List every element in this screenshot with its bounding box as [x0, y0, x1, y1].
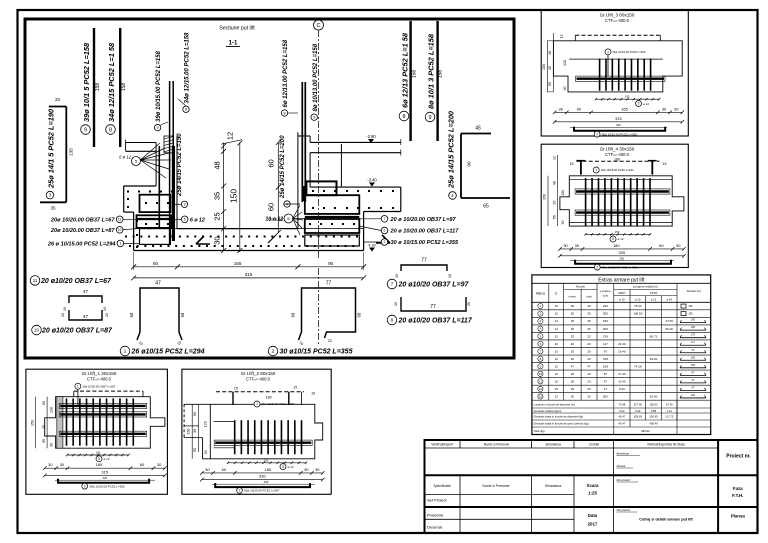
svg-text:60: 60 — [222, 467, 227, 472]
svg-text:26: 26 — [571, 304, 575, 308]
box2 dashed left edge — [183, 404, 185, 437]
bar item 9 right line — [436, 21, 438, 141]
svg-text:12: 12 — [555, 334, 559, 338]
svg-text:165: 165 — [234, 261, 242, 266]
svg-text:25ø 14/1 5 PC52 L=190: 25ø 14/1 5 PC52 L=190 — [47, 108, 56, 189]
svg-text:OB37: OB37 — [618, 291, 626, 295]
box3 horizontal rebar — [576, 76, 666, 81]
box2 bottom bar — [215, 483, 310, 487]
box1 bottom bar — [58, 479, 149, 483]
svg-text:165: 165 — [621, 106, 628, 111]
title block vertical lines — [459, 440, 461, 448]
svg-text:20: 20 — [394, 302, 398, 306]
svg-text:Proiect nr.: Proiect nr. — [726, 454, 751, 460]
svg-text:9: 9 — [157, 126, 159, 130]
stirrup shape 10 label — [32, 325, 42, 335]
svg-text:Verificat/Expert: Verificat/Expert — [431, 443, 453, 447]
svg-text:276: 276 — [691, 334, 696, 337]
svg-text:1: 1 — [607, 50, 609, 54]
footing horizontal rebar left — [137, 218, 172, 220]
bar item 9 line — [93, 28, 95, 147]
box3 tick label — [636, 101, 642, 107]
svg-text:15: 15 — [293, 385, 297, 389]
svg-text:150: 150 — [30, 420, 34, 426]
svg-text:7: 7 — [391, 282, 394, 288]
svg-text:8: 8 — [185, 108, 187, 112]
svg-text:-3.40: -3.40 — [367, 178, 377, 183]
mid callout 5 with 6 o 12 — [181, 216, 188, 223]
svg-text:PC52: PC52 — [650, 291, 657, 295]
box2 vertical rebars — [234, 420, 236, 454]
svg-text:Cerinta: Cerinta — [589, 443, 600, 447]
bar shape 4 label — [449, 192, 457, 200]
bar item 8 line — [119, 28, 121, 147]
svg-text:34ø 12/15 PC52 L=1 58: 34ø 12/15 PC52 L=1 58 — [107, 42, 116, 122]
svg-text:77: 77 — [326, 281, 332, 287]
svg-text:55: 55 — [548, 82, 552, 86]
svg-text:ø 10: ø 10 — [619, 298, 625, 302]
svg-text:68: 68 — [180, 312, 185, 317]
svg-text:68: 68 — [291, 312, 296, 317]
table data rows — [532, 309, 711, 311]
svg-text:60: 60 — [266, 159, 275, 167]
box2 tick dim line — [228, 462, 306, 464]
svg-text:1:25: 1:25 — [588, 491, 597, 496]
left wall second rebar — [158, 146, 160, 228]
svg-text:30: 30 — [563, 87, 567, 91]
svg-text:20: 20 — [587, 395, 591, 399]
svg-text:19.40: 19.40 — [618, 349, 626, 353]
stirrup shape 7 drawing — [401, 265, 447, 271]
stirrup shape 2 drawing — [299, 288, 356, 340]
svg-text:15: 15 — [234, 386, 238, 390]
box4 dim total 330 — [560, 255, 684, 257]
box1 horizontal rebar 3 — [59, 431, 147, 436]
svg-text:Nume si Prenume: Nume si Prenume — [482, 484, 509, 488]
svg-text:45.47: 45.47 — [619, 422, 626, 426]
svg-text:35: 35 — [213, 192, 222, 200]
svg-text:CTFu=-400.0: CTFu=-400.0 — [605, 152, 630, 157]
svg-text:12: 12 — [555, 395, 559, 399]
svg-text:0.89: 0.89 — [651, 409, 657, 413]
svg-text:20 ø10/20 OB37 L=87: 20 ø10/20 OB37 L=87 — [41, 328, 113, 335]
svg-text:35: 35 — [42, 425, 46, 429]
svg-text:20: 20 — [571, 387, 575, 391]
right footing stirrup rect A — [305, 195, 360, 214]
svg-text:158: 158 — [691, 364, 696, 367]
svg-text:35: 35 — [552, 201, 556, 205]
svg-text:65: 65 — [483, 204, 489, 210]
svg-text:63.20: 63.20 — [650, 357, 658, 361]
svg-text:Proiectat: Proiectat — [427, 513, 444, 518]
box3 bottom bar — [574, 127, 665, 131]
svg-text:ø 12: ø 12 — [651, 298, 657, 302]
svg-text:26 ø10/15 PC52 L=294: 26 ø10/15 PC52 L=294 — [131, 349, 205, 356]
svg-text:3: 3 — [183, 203, 185, 207]
box3 dim row — [555, 111, 683, 113]
box1 horizontal rebar 1 — [59, 403, 147, 408]
svg-text:48: 48 — [548, 51, 552, 55]
svg-text:60: 60 — [266, 203, 275, 211]
stirrup shape 10 drawing — [69, 310, 102, 320]
svg-text:10: 10 — [555, 387, 559, 391]
svg-text:30: 30 — [304, 467, 309, 472]
svg-text:20 ø10/20 OB37 L=97: 20 ø10/20 OB37 L=97 — [398, 282, 470, 289]
svg-text:Lungime in functie de diametre: Lungime in functie de diametre (m) — [534, 403, 576, 407]
bottom slab top steps — [134, 228, 177, 230]
svg-text:30 ø 10/15.00 PC52 L=355: 30 ø 10/15.00 PC52 L=355 — [391, 240, 460, 246]
svg-text:12: 12 — [552, 156, 556, 160]
svg-text:10: 10 — [539, 372, 543, 376]
svg-text:117.73: 117.73 — [665, 415, 674, 419]
svg-text:438.49: 438.49 — [649, 422, 658, 426]
pit floor line — [177, 228, 298, 230]
svg-text:ø 10: ø 10 — [635, 298, 641, 302]
svg-text:47: 47 — [587, 364, 591, 368]
footing horizontal rebar right — [305, 216, 360, 218]
svg-text:60: 60 — [577, 106, 582, 111]
svg-text:2: 2 — [84, 484, 86, 488]
svg-text:10: 10 — [555, 342, 559, 346]
title block header row line — [425, 447, 719, 449]
bar item 8 wall label — [183, 106, 189, 112]
svg-text:20ø 10/20.00 OB37 L=87: 20ø 10/20.00 OB37 L=87 — [50, 228, 115, 234]
svg-text:26ø 10/20.00 PC52 L=287: 26ø 10/20.00 PC52 L=287 — [262, 402, 295, 406]
svg-text:120: 120 — [563, 60, 567, 66]
table summary rows — [532, 407, 711, 409]
box2 horizontal rebar — [214, 440, 312, 445]
box1 horizontal rebar 2 — [59, 412, 147, 417]
svg-text:0.62: 0.62 — [635, 409, 641, 413]
svg-text:50.00: 50.00 — [665, 327, 673, 331]
svg-text:262: 262 — [691, 394, 696, 397]
svg-text:34ø 12/15.00 PC52 L=158: 34ø 12/15.00 PC52 L=158 — [185, 32, 191, 104]
left wall vertical rebar thick — [172, 146, 175, 241]
svg-text:25: 25 — [587, 319, 591, 323]
svg-text:40: 40 — [587, 357, 591, 361]
box1 dashed top bar — [74, 390, 143, 392]
detail box Gr.I.lift_3 — [541, 10, 688, 136]
svg-text:5: 5 — [98, 457, 100, 461]
svg-text:ø 14: ø 14 — [666, 298, 672, 302]
rebar fan item 5 left — [132, 157, 141, 166]
axis C centerline — [318, 30, 320, 258]
svg-text:22: 22 — [587, 334, 591, 338]
svg-text:30: 30 — [558, 106, 563, 111]
svg-text:47.50: 47.50 — [665, 319, 673, 323]
svg-text:15: 15 — [663, 162, 667, 166]
svg-text:39ø 10/15.00 PC52 L=158: 39ø 10/15.00 PC52 L=158 — [156, 50, 162, 122]
svg-text:10: 10 — [555, 372, 559, 376]
title block thick separators — [425, 474, 758, 476]
table title — [532, 282, 711, 284]
svg-text:117: 117 — [691, 341, 695, 344]
svg-text:Lungime totală (m): Lungime totală (m) — [633, 285, 658, 289]
svg-text:titlu plansa: titlu plansa — [617, 508, 631, 512]
dim 150 total — [239, 143, 241, 252]
box3 vertical rebars — [599, 59, 601, 91]
svg-text:60: 60 — [153, 261, 159, 266]
svg-text:250: 250 — [619, 257, 624, 261]
svg-text:10: 10 — [555, 312, 559, 316]
svg-text:total: total — [587, 295, 592, 299]
svg-text:77: 77 — [430, 304, 436, 310]
svg-text:30: 30 — [575, 243, 580, 248]
svg-text:2: 2 — [596, 265, 598, 269]
svg-text:25: 25 — [571, 319, 575, 323]
right slab step line — [340, 144, 342, 187]
box4 vertical rebars — [585, 178, 587, 226]
left wall corner haunch hatch — [164, 136, 174, 153]
bar item 9 right wall label — [311, 114, 317, 120]
svg-text:165: 165 — [96, 462, 103, 467]
svg-text:30: 30 — [662, 106, 667, 111]
svg-text:150: 150 — [96, 451, 101, 455]
box1 left dim chain — [35, 397, 37, 449]
svg-text:30: 30 — [213, 236, 222, 244]
right footing ledge — [364, 211, 401, 213]
box3 plan outline — [553, 41, 682, 92]
svg-text:150: 150 — [543, 194, 547, 200]
right footing bottom stirrup — [305, 235, 360, 246]
box2 inner bar label — [254, 401, 260, 407]
svg-text:67: 67 — [604, 379, 608, 383]
svg-text:2: 2 — [272, 349, 275, 355]
svg-text:315: 315 — [615, 116, 622, 121]
callout 6 right — [381, 227, 388, 234]
rebar fan item 5 right — [284, 214, 293, 223]
svg-text:30: 30 — [676, 243, 681, 248]
svg-text:26 ø 10/15.00 PC52 L=294: 26 ø 10/15.00 PC52 L=294 — [47, 241, 117, 247]
svg-text:8: 8 — [403, 114, 406, 120]
bottom dim line 60/165/90 — [134, 266, 364, 268]
svg-text:290: 290 — [264, 480, 269, 484]
svg-text:1-1: 1-1 — [229, 41, 238, 47]
svg-text:6: 6 — [391, 318, 394, 324]
svg-text:Scara: Scara — [587, 483, 600, 488]
svg-text:190: 190 — [603, 319, 608, 323]
svg-text:159.69: 159.69 — [634, 415, 643, 419]
right footing top at -3.40 — [310, 186, 401, 188]
svg-text:10: 10 — [395, 274, 399, 278]
bar item 8 right line — [409, 21, 411, 141]
svg-text:8: 8 — [283, 111, 285, 115]
svg-text:45.47: 45.47 — [619, 415, 626, 419]
svg-text:5: 5 — [638, 102, 640, 106]
box2 inner wall line — [209, 404, 211, 459]
svg-text:10: 10 — [34, 328, 39, 333]
svg-text:12: 12 — [226, 132, 235, 140]
svg-text:73.48: 73.48 — [619, 403, 626, 407]
svg-text:Specificatie: Specificatie — [433, 484, 450, 488]
svg-text:10: 10 — [63, 307, 67, 311]
svg-text:Plansa: Plansa — [731, 514, 746, 519]
box2 dashed top bar — [216, 391, 304, 393]
left footing bottom stirrup — [140, 229, 171, 245]
svg-text:1: 1 — [119, 242, 121, 246]
box3 left dim chain — [546, 41, 548, 92]
bar item 9 wall label — [154, 124, 160, 130]
svg-text:355: 355 — [689, 313, 694, 316]
svg-text:30ø 10/20.00 PC52 L=287: 30ø 10/20.00 PC52 L=287 — [244, 489, 280, 493]
svg-text:Nume si Prenume: Nume si Prenume — [484, 443, 510, 447]
left floor slab lines — [126, 142, 157, 144]
box1 dim total 315 — [45, 474, 165, 476]
svg-text:Sectiune put lift: Sectiune put lift — [219, 26, 255, 32]
box4 tick dim line — [586, 233, 650, 235]
box2 dim total 330 — [202, 479, 323, 481]
svg-text:30 ø10/15 PC52 L=355: 30 ø10/15 PC52 L=355 — [280, 349, 353, 356]
svg-text:10: 10 — [555, 304, 559, 308]
svg-text:30: 30 — [204, 450, 208, 454]
svg-text:15: 15 — [311, 391, 315, 395]
svg-text:200: 200 — [691, 326, 696, 329]
svg-text:Total (kg): Total (kg) — [534, 429, 545, 433]
svg-text:117: 117 — [603, 342, 608, 346]
mid callout 3 — [174, 203, 181, 205]
box3 inner bar label — [605, 49, 611, 55]
svg-text:Faza: Faza — [733, 486, 743, 491]
box4 plan outline — [560, 176, 684, 226]
svg-text:15ø 10/20.00 OB37 L=287: 15ø 10/20.00 OB37 L=287 — [82, 384, 115, 388]
stirrup shape 1 label — [120, 346, 130, 356]
svg-text:12: 12 — [555, 357, 559, 361]
svg-text:20: 20 — [61, 313, 65, 317]
bottom slab bar hooks left — [196, 236, 210, 244]
svg-text:Lungime: Lungime — [600, 289, 611, 293]
svg-text:30ø 10/15.00 PC52 L=355: 30ø 10/15.00 PC52 L=355 — [89, 484, 125, 488]
svg-text:158: 158 — [121, 83, 127, 92]
svg-text:106.50: 106.50 — [633, 312, 643, 316]
right footing stirrup rect B — [305, 219, 360, 233]
svg-text:6ø 12/13.00 PC52 L=158: 6ø 12/13.00 PC52 L=158 — [283, 39, 289, 107]
svg-text:35: 35 — [193, 429, 197, 433]
box1 tick label — [96, 456, 102, 462]
svg-text:22: 22 — [571, 334, 575, 338]
svg-text:48: 48 — [552, 181, 556, 185]
svg-text:25: 25 — [571, 327, 575, 331]
svg-text:330: 330 — [619, 250, 626, 255]
stirrup shape 6 label — [387, 315, 397, 325]
stirrup shape 2 label — [268, 346, 278, 356]
callout 2 right — [381, 239, 388, 246]
svg-text:14: 14 — [555, 319, 559, 323]
svg-text:47: 47 — [83, 314, 89, 320]
axis C circle — [314, 20, 324, 30]
svg-text:1: 1 — [256, 402, 258, 406]
svg-text:25ø 14/15 PC52 L=190: 25ø 14/15 PC52 L=190 — [177, 133, 183, 197]
svg-text:68: 68 — [357, 312, 362, 317]
bottom slab bar hooks right — [376, 235, 390, 243]
svg-text:158: 158 — [691, 356, 696, 359]
svg-text:120: 120 — [203, 421, 207, 427]
left wall outer face — [155, 143, 157, 187]
bottom dim line 315 — [134, 277, 364, 279]
svg-text:13.40: 13.40 — [618, 379, 626, 383]
svg-text:22: 22 — [328, 339, 332, 343]
svg-text:20: 20 — [571, 372, 575, 376]
svg-text:130: 130 — [561, 190, 565, 196]
svg-text:9: 9 — [429, 115, 432, 121]
box3 tick dim line — [596, 98, 659, 100]
svg-text:2: 2 — [384, 240, 386, 244]
svg-text:2: 2 — [239, 489, 241, 493]
title block outline — [425, 440, 758, 533]
svg-text:26: 26 — [587, 304, 591, 308]
svg-text:35: 35 — [50, 206, 56, 211]
svg-text:68: 68 — [129, 312, 134, 317]
left slab end ticks — [125, 140, 127, 143]
mid callout 4 — [284, 203, 300, 205]
svg-text:12: 12 — [560, 35, 564, 39]
svg-text:10: 10 — [555, 364, 559, 368]
bar shape 3 bracket — [65, 107, 67, 203]
footing dots right — [312, 190, 314, 192]
svg-text:13: 13 — [539, 395, 543, 399]
svg-text:Gr.I.lift_1 30x150: Gr.I.lift_1 30x150 — [82, 371, 117, 376]
svg-text:95: 95 — [42, 439, 46, 443]
svg-text:30: 30 — [48, 462, 53, 467]
svg-text:20: 20 — [55, 97, 61, 102]
svg-text:20: 20 — [571, 395, 575, 399]
vertical dim chain right 60/60 — [277, 142, 279, 232]
svg-text:330: 330 — [259, 474, 266, 479]
svg-text:Extras armare put lift: Extras armare put lift — [598, 277, 645, 283]
bar shape 3 label — [46, 191, 54, 199]
svg-text:483.93: 483.93 — [641, 429, 650, 433]
svg-text:180: 180 — [266, 396, 272, 400]
svg-text:180: 180 — [265, 467, 272, 472]
svg-text:276: 276 — [603, 334, 608, 338]
svg-text:20: 20 — [587, 342, 591, 346]
svg-text:52.40: 52.40 — [650, 395, 658, 399]
svg-text:17.40: 17.40 — [618, 372, 626, 376]
svg-text:48: 48 — [213, 161, 222, 169]
svg-text:355: 355 — [603, 312, 608, 316]
svg-text:30: 30 — [50, 443, 54, 447]
svg-text:Gr.I.lift_2 80x150: Gr.I.lift_2 80x150 — [241, 371, 276, 376]
svg-text:55: 55 — [193, 448, 197, 452]
svg-text:180: 180 — [614, 157, 620, 161]
svg-text:2017: 2017 — [588, 522, 598, 527]
svg-text:40: 40 — [571, 357, 575, 361]
svg-text:10 ø 12: 10 ø 12 — [265, 217, 283, 223]
box4 bottom bar — [575, 260, 671, 264]
svg-text:6 ø 12: 6 ø 12 — [119, 155, 132, 160]
stirrup shape 11 drawing — [69, 296, 102, 303]
svg-text:294: 294 — [689, 305, 694, 308]
stirrup shape 11 label — [30, 276, 40, 286]
vertical dim chain main — [223, 143, 225, 251]
svg-text:20 ø 10/20.00 OB37 L=97: 20 ø 10/20.00 OB37 L=97 — [390, 217, 457, 223]
svg-text:97.30: 97.30 — [666, 403, 673, 407]
svg-text:CTFu=-400.0: CTFu=-400.0 — [87, 377, 112, 382]
svg-text:30: 30 — [205, 467, 210, 472]
box2 plan outline — [184, 404, 323, 459]
svg-text:158: 158 — [603, 357, 608, 361]
svg-text:Data: Data — [588, 513, 598, 518]
box2 hanger bars — [232, 392, 234, 405]
svg-text:162.45: 162.45 — [649, 415, 658, 419]
bar item 9 label — [81, 125, 91, 135]
svg-text:180: 180 — [613, 243, 620, 248]
svg-text:(cm): (cm) — [603, 293, 608, 297]
detail box Gr.I.lift_4 — [541, 144, 688, 267]
svg-text:76.44: 76.44 — [634, 304, 642, 308]
left footing stirrup rect A — [140, 195, 171, 212]
svg-text:30: 30 — [563, 243, 568, 248]
svg-text:10: 10 — [118, 228, 122, 232]
